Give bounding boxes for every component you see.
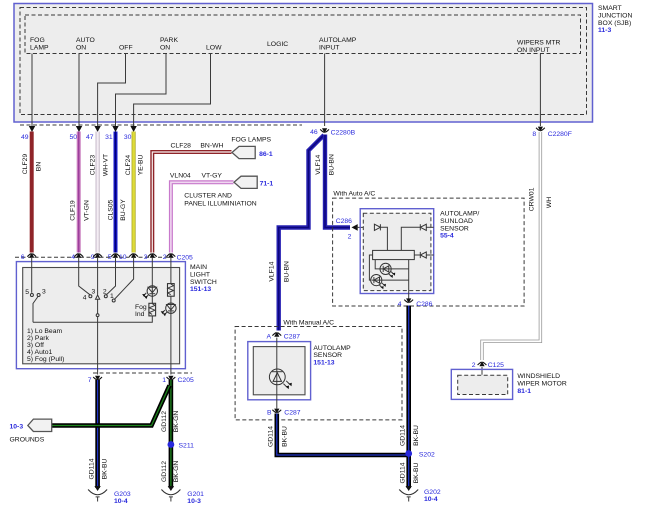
svg-text:ON: ON [160, 45, 170, 52]
svg-text:VT-GN: VT-GN [83, 200, 90, 221]
svg-text:49: 49 [21, 134, 29, 141]
autolamp sunload sensor box [360, 209, 434, 294]
svg-text:1: 1 [110, 293, 114, 300]
wire CLF24 YE-BU pin30 to pin10 [132, 132, 136, 253]
sunload diode 2 [426, 226, 433, 228]
svg-text:SUNLOAD: SUNLOAD [440, 218, 473, 225]
with auto A/C dashed box [333, 198, 524, 306]
svg-text:JUNCTION: JUNCTION [598, 12, 632, 19]
svg-text:C286: C286 [336, 218, 352, 225]
svg-text:2: 2 [348, 234, 352, 241]
svg-text:GD114: GD114 [400, 462, 407, 483]
svg-text:10-3: 10-3 [10, 424, 24, 431]
svg-text:G201: G201 [187, 491, 204, 498]
svg-text:BK-GN: BK-GN [173, 461, 180, 483]
fog lamps tag 86-1 [232, 146, 255, 158]
smart junction box SJB outer box [14, 4, 593, 123]
svg-text:BU-BN: BU-BN [284, 261, 291, 282]
svg-text:11-3: 11-3 [598, 27, 611, 34]
SJB internal line OFF pin 47 [98, 54, 126, 128]
svg-text:5: 5 [25, 289, 29, 296]
svg-text:GD114: GD114 [88, 458, 95, 479]
svg-text:AUTOLAMP: AUTOLAMP [319, 37, 357, 44]
contact 1 [112, 299, 115, 302]
ground G201 [161, 486, 180, 502]
with manual A/C dashed box [235, 327, 402, 420]
switch lead pin 2 to resistor [170, 257, 172, 284]
svg-text:VT-GY: VT-GY [202, 173, 223, 180]
svg-text:Fog: Fog [135, 304, 147, 311]
svg-text:FOG LAMPS: FOG LAMPS [231, 137, 271, 144]
svg-text:MAIN: MAIN [190, 264, 207, 271]
svg-text:INPUT: INPUT [319, 45, 339, 52]
svg-text:G202: G202 [424, 489, 441, 496]
SJB internal line AUTO ON pin 50 [78, 54, 80, 128]
svg-text:6: 6 [21, 254, 25, 261]
panel resistor [168, 284, 175, 297]
svg-text:Ind: Ind [135, 311, 145, 318]
connector C286 pin 2 arrow [352, 224, 358, 231]
svg-text:86-1: 86-1 [259, 151, 273, 158]
svg-text:G203: G203 [114, 491, 131, 498]
autolamp sensor box [248, 342, 311, 400]
connector C2280B bowtie [320, 128, 329, 133]
svg-text:CRW01: CRW01 [528, 187, 535, 211]
wire CLF19 VT-GN pin50 to pin4 [77, 132, 81, 253]
svg-text:4: 4 [83, 295, 87, 302]
svg-text:BOX (SJB): BOX (SJB) [598, 20, 631, 27]
svg-text:81-1: 81-1 [517, 388, 531, 395]
contact 2 [104, 295, 107, 298]
svg-text:C287: C287 [284, 333, 300, 340]
wiper contact dot [96, 314, 99, 317]
connector C2280B dashed line [20, 124, 302, 126]
svg-text:CLF29: CLF29 [22, 154, 29, 175]
contact 5 [30, 294, 33, 297]
switch bottom bus wire [33, 316, 152, 322]
svg-text:OFF: OFF [119, 45, 133, 52]
svg-text:C205: C205 [177, 255, 193, 262]
ground G202 [399, 486, 418, 502]
svg-text:SENSOR: SENSOR [313, 352, 342, 359]
wire VLN04 VT-GY to cluster [171, 182, 234, 252]
svg-text:FOG: FOG [30, 37, 45, 44]
svg-text:GROUNDS: GROUNDS [10, 436, 45, 443]
svg-text:8: 8 [532, 131, 536, 138]
svg-text:C286: C286 [416, 301, 432, 308]
switch lead pin 3 to lamp [151, 257, 153, 303]
SJB internal line AUTOLAMP INPUT pin 46 [324, 54, 326, 127]
svg-text:151-13: 151-13 [313, 359, 334, 366]
svg-text:WINDSHIELD: WINDSHIELD [517, 373, 560, 380]
svg-text:46: 46 [310, 129, 318, 136]
svg-text:9: 9 [91, 254, 95, 261]
wire CLF23 WH-VT pin47 to pin9 [96, 132, 100, 253]
svg-text:AUTOLAMP/: AUTOLAMP/ [440, 211, 479, 218]
svg-text:1) Lo Beam: 1) Lo Beam [27, 328, 62, 335]
svg-text:4) Auto1: 4) Auto1 [27, 349, 53, 356]
svg-text:GD114: GD114 [400, 425, 407, 446]
svg-text:VLF14: VLF14 [269, 261, 276, 281]
svg-text:YE-BU: YE-BU [138, 155, 145, 176]
svg-text:30: 30 [124, 134, 132, 141]
svg-text:B: B [267, 409, 272, 416]
switch lead pin 4 to contact 4 [79, 257, 90, 295]
svg-text:C205: C205 [178, 377, 194, 384]
svg-text:LOW: LOW [206, 45, 222, 52]
svg-text:50: 50 [69, 134, 77, 141]
svg-text:1: 1 [162, 377, 166, 384]
contact 3a [37, 294, 40, 297]
svg-text:CLF24: CLF24 [125, 155, 132, 176]
splice S202 [405, 450, 412, 457]
connector C287 pin B arrow [272, 409, 281, 414]
svg-text:BK-BU: BK-BU [413, 425, 420, 446]
svg-text:55-4: 55-4 [440, 233, 454, 240]
svg-text:PANEL ILLUMINIATION: PANEL ILLUMINIATION [184, 201, 256, 208]
svg-text:2: 2 [163, 254, 167, 261]
svg-text:BK-BU: BK-BU [101, 459, 108, 480]
switch lead pin 5 to contact 2 [106, 257, 115, 295]
svg-text:3: 3 [42, 289, 46, 296]
wire GD114 BK-BU pin B to S202 [277, 414, 409, 456]
svg-text:4: 4 [398, 301, 402, 308]
svg-text:3) Off: 3) Off [27, 342, 44, 349]
photodiode 1 [375, 260, 380, 269]
svg-text:151-13: 151-13 [190, 286, 211, 293]
SJB internal line WIPERS MTR pin 8 [539, 54, 541, 127]
contact 4 [89, 295, 92, 298]
svg-text:S202: S202 [419, 451, 435, 458]
svg-text:GD112: GD112 [161, 411, 168, 432]
cluster panel tag 71-1 [234, 176, 257, 188]
wire VLF14 BU-BN right strand to C286 2 [325, 135, 350, 228]
svg-text:BK-BU: BK-BU [282, 426, 289, 447]
wire GD112 BK-GN pin1 to G201 [169, 380, 174, 488]
wire CRW01 WH pin8 to C125 [482, 132, 540, 360]
svg-text:With Manual A/C: With Manual A/C [283, 319, 334, 326]
indicator lamp 1 [147, 286, 157, 296]
svg-text:CLF19: CLF19 [69, 200, 76, 221]
svg-text:10: 10 [119, 254, 127, 261]
svg-text:ON: ON [76, 45, 86, 52]
svg-text:LIGHT: LIGHT [190, 271, 210, 278]
svg-text:3: 3 [144, 254, 148, 261]
svg-text:WIPERS MTR: WIPERS MTR [517, 40, 561, 47]
svg-text:2: 2 [103, 289, 107, 296]
svg-text:GD114: GD114 [268, 426, 275, 447]
svg-text:CLS05: CLS05 [108, 199, 115, 220]
switch lead from pin 6 to contact 5 [31, 257, 33, 293]
svg-text:3: 3 [92, 288, 96, 295]
connector C286 pin 4 bowtie [404, 298, 413, 303]
SJB internal line FOG LAMP pin 49 [31, 54, 33, 128]
svg-text:2) Park: 2) Park [27, 335, 50, 342]
autolamp sensor photodiode [276, 338, 278, 409]
wire CLF29 BN pin49 to pin6 [30, 132, 34, 253]
svg-text:2: 2 [472, 362, 476, 369]
svg-text:S211: S211 [179, 443, 195, 450]
connector C205 top dashed line [15, 256, 174, 258]
svg-text:SWITCH: SWITCH [190, 279, 217, 286]
wire GD114 BK-BU pin7 to G203 [95, 380, 100, 488]
svg-text:47: 47 [86, 134, 94, 141]
svg-text:ON INPUT: ON INPUT [517, 47, 549, 54]
sunload amplifier block [373, 250, 415, 259]
svg-text:LAMP: LAMP [30, 45, 49, 52]
svg-text:7: 7 [88, 377, 92, 384]
svg-text:4: 4 [71, 254, 75, 261]
svg-text:71-1: 71-1 [260, 181, 274, 188]
wire CLF28 BN-WH to fog lamps [152, 152, 231, 253]
svg-text:WIPER MOTOR: WIPER MOTOR [517, 381, 566, 388]
svg-text:BN-WH: BN-WH [200, 143, 223, 150]
svg-text:10-4: 10-4 [424, 496, 438, 503]
switch lever [33, 297, 38, 323]
svg-text:BN: BN [36, 162, 43, 172]
svg-text:C125: C125 [488, 362, 504, 369]
svg-text:WH-VT: WH-VT [103, 154, 110, 176]
switch lead pin 10 to contact 1 [114, 257, 133, 299]
svg-text:BK-GN: BK-GN [173, 411, 180, 433]
wire GD114 BK-BU sensor pin4 to S202 [406, 306, 411, 456]
svg-text:LOGIC: LOGIC [267, 41, 288, 48]
sunload output line to pin 4 [408, 260, 410, 299]
svg-text:C2280F: C2280F [548, 131, 572, 138]
svg-text:WH: WH [546, 197, 553, 208]
svg-text:AUTOLAMP: AUTOLAMP [313, 345, 351, 352]
switch lead pin 9 wiper [97, 257, 99, 295]
connector C287 pin A arrow [272, 332, 281, 337]
svg-text:10-3: 10-3 [187, 498, 201, 505]
main light switch box [16, 262, 185, 369]
svg-text:31: 31 [105, 134, 113, 141]
wire GD114 BK-BU S202 to G202 [406, 453, 411, 488]
photodiode 2 [369, 255, 372, 280]
sunload diode 3 [426, 254, 433, 256]
wire CLS05 BU-GY pin31 to pin5 [114, 132, 118, 253]
sunload diode 1 [374, 224, 380, 230]
svg-text:BK-BU: BK-BU [413, 463, 420, 484]
svg-text:A: A [266, 333, 271, 340]
svg-text:CLUSTER AND: CLUSTER AND [184, 193, 232, 200]
SJB internal line LOW pin 30 [134, 54, 211, 128]
svg-text:C2280B: C2280B [331, 130, 356, 137]
svg-text:PARK: PARK [160, 37, 178, 44]
windshield wiper motor box [451, 369, 512, 399]
ground G203 [88, 486, 107, 502]
svg-text:VLN04: VLN04 [170, 173, 191, 180]
svg-text:With Auto A/C: With Auto A/C [333, 190, 375, 197]
fog ind resistor [149, 303, 156, 316]
svg-text:5) Fog (Pull): 5) Fog (Pull) [27, 356, 64, 363]
wire VLF14 BU-BN left strand to C287 A [279, 135, 324, 331]
svg-text:SMART: SMART [598, 5, 622, 12]
svg-text:CLF23: CLF23 [90, 155, 97, 176]
connector C205 bottom dashed line [93, 372, 192, 374]
svg-text:BU-BN: BU-BN [329, 154, 336, 175]
SJB internal line PARK ON pin 31 [116, 54, 167, 128]
svg-text:5: 5 [108, 254, 112, 261]
svg-text:SENSOR: SENSOR [440, 225, 469, 232]
wire GD112 diagonal branch [52, 386, 170, 426]
indicator lamp 2 [166, 303, 176, 313]
svg-text:CLF28: CLF28 [171, 143, 192, 150]
svg-text:AUTO: AUTO [76, 37, 95, 44]
svg-text:BU-GY: BU-GY [120, 199, 127, 221]
connector C125 pin 2 arrow [478, 361, 487, 366]
svg-text:10-4: 10-4 [114, 498, 128, 505]
svg-text:GD112: GD112 [161, 461, 168, 482]
splice S211 [168, 441, 175, 448]
grounds tag 10-3 [28, 419, 52, 431]
svg-text:C287: C287 [284, 409, 300, 416]
svg-text:VLF14: VLF14 [315, 154, 322, 174]
